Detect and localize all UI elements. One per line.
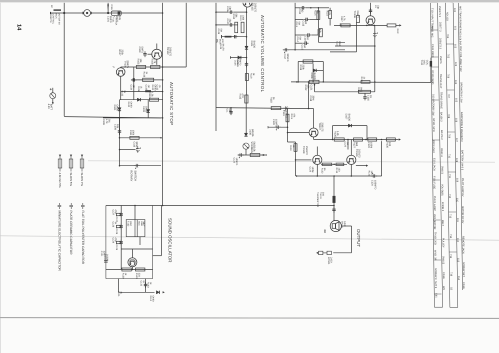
resistor R-out (387, 24, 396, 27)
svg-text:R111: R111 (129, 130, 132, 136)
svg-text:102: 102 (454, 44, 457, 49)
capacitor C111 (134, 164, 140, 169)
svg-text:BA176: BA176 (222, 44, 225, 52)
wire mid branch (147, 100, 149, 118)
svg-text:106: 106 (455, 118, 458, 123)
table row tick (435, 293, 442, 295)
wire rotary vertical (119, 118, 121, 166)
svg-text:J101 MOTOR: J101 MOTOR (433, 214, 436, 230)
svg-text:30M: 30M (338, 41, 341, 46)
wire jog51 (330, 51, 357, 53)
label C103 (138, 47, 144, 54)
labels cluster2 (302, 21, 308, 27)
svg-text:2SB75: 2SB75 (439, 56, 442, 64)
wire r column (317, 8, 319, 43)
resistor R114 (317, 11, 320, 19)
wire TR102 top (156, 44, 158, 50)
label R122v (289, 145, 295, 151)
arrowhead (399, 24, 401, 26)
svg-text:C102: C102 (156, 85, 159, 91)
svg-text:R119: R119 (299, 65, 302, 71)
junction (308, 108, 310, 110)
label R123 value (357, 87, 363, 93)
wire osc exit (117, 279, 119, 293)
wire t102 tap (139, 237, 141, 245)
svg-text:WHT: WHT (142, 222, 145, 228)
labels cluster (298, 9, 304, 15)
wire branch (133, 67, 135, 100)
svg-text:108: 108 (455, 158, 458, 163)
label R118 (270, 97, 276, 103)
svg-text:C103: C103 (138, 47, 141, 53)
svg-text:C119: C119 (282, 110, 285, 116)
wire TR109 collector (350, 140, 352, 156)
wire stub (216, 11, 228, 13)
svg-text:NUT 3: NUT 3 (434, 281, 437, 289)
junction (162, 205, 164, 207)
svg-text:712: 712 (448, 194, 451, 199)
svg-text:PLATE CERAMIC CAPACITOR: PLATE CERAMIC CAPACITOR (69, 211, 73, 256)
resistor R117b (357, 16, 360, 23)
svg-text:R109: R109 (102, 119, 105, 125)
wire TR107 base (288, 132, 310, 134)
svg-text:R132: R132 (321, 168, 324, 174)
earphone jack EP101 (319, 251, 332, 254)
wire TR108 base (296, 159, 312, 161)
junction blob (107, 12, 109, 14)
svg-text:R115: R115 (316, 29, 319, 35)
svg-text:111: 111 (456, 218, 459, 222)
label C131b (100, 251, 106, 257)
junction (374, 45, 376, 47)
svg-text:OSC: OSC (423, 60, 426, 65)
svg-text:C131: C131 (117, 291, 120, 297)
junction (119, 165, 121, 167)
label C118 (309, 96, 315, 102)
junction (332, 139, 334, 141)
mic black bar (225, 36, 232, 38)
resistor R118 (271, 107, 281, 110)
table B bottom (450, 306, 458, 308)
junction (119, 149, 121, 151)
svg-text:R140: R140 (147, 282, 150, 288)
wire stub (234, 11, 247, 13)
wire osc stub (153, 255, 162, 257)
label C1x (114, 124, 120, 130)
wire stub (295, 42, 303, 44)
tick (266, 154, 268, 156)
junction (373, 25, 375, 27)
junction (162, 12, 164, 14)
svg-text:MOTOR DC 6V: MOTOR DC 6V (461, 206, 464, 224)
wire speaker right (342, 225, 352, 227)
junction (296, 81, 298, 83)
capacitor C116 (363, 95, 366, 101)
wire d107 row (333, 125, 368, 127)
svg-text:BA126: BA126 (253, 41, 256, 49)
wire TR108 collector (316, 147, 318, 156)
svg-text:220k: 220k (302, 65, 305, 71)
svg-text:RC: RC (50, 5, 53, 9)
label TR111 (103, 254, 109, 262)
svg-text:0.2W: 0.2W (343, 221, 346, 227)
svg-text:D105: D105 (219, 44, 222, 50)
svg-text:R131: R131 (368, 171, 371, 177)
motor jack J101 (83, 10, 91, 17)
svg-text:470: 470 (241, 94, 244, 99)
label D107 BA126 (345, 114, 351, 122)
capacitor C117 (283, 48, 289, 53)
label R117 (340, 16, 346, 22)
table row tick (448, 171, 456, 173)
label C109b2 (236, 59, 242, 66)
table line L1 (431, 3, 435, 308)
svg-text:D108: D108 (248, 129, 251, 135)
svg-text:KNOB 2: KNOB 2 (441, 202, 444, 212)
svg-text:5M: 5M (303, 45, 306, 48)
svg-text:100M: 100M (311, 167, 314, 173)
legend arrow (59, 155, 61, 157)
wire bus V5 (294, 1, 296, 50)
label EP101 (327, 257, 333, 265)
table line L5 (458, 3, 462, 291)
svg-text:R106: R106 (151, 59, 154, 65)
svg-text:SCREW 3: SCREW 3 (434, 268, 437, 280)
wire drop (314, 84, 316, 92)
wire stop row (121, 66, 187, 68)
svg-text:R117: R117 (340, 16, 343, 22)
wire mic row (222, 36, 247, 38)
junction (351, 175, 353, 177)
svg-text:109: 109 (455, 178, 458, 183)
wire row79 (131, 79, 163, 81)
transistor TR111 inner ring (129, 259, 135, 265)
label D101a value (151, 85, 157, 92)
svg-text:C129: C129 (115, 245, 118, 251)
label R120 (304, 85, 312, 91)
junction (119, 137, 121, 139)
capacitor C109b (245, 62, 248, 68)
junction (162, 79, 164, 81)
wire stub (329, 19, 331, 26)
label R107 220k (118, 50, 124, 57)
svg-text:SW102: SW102 (442, 256, 445, 265)
label R113 (239, 15, 245, 21)
svg-text:SP101: SP101 (341, 221, 344, 229)
svg-text:R124: R124 (289, 145, 292, 151)
label mic (216, 39, 225, 45)
svg-text:MINIATURE ELECTROLYTIC CAPACIT: MINIATURE ELECTROLYTIC CAPACITOR (57, 211, 61, 272)
svg-text:2SB175: 2SB175 (253, 3, 256, 13)
wire tr111 collector (131, 249, 133, 258)
label TH101 (316, 192, 325, 207)
svg-text:C115: C115 (301, 45, 304, 51)
lead tick (50, 12, 52, 14)
svg-text:C114: C114 (304, 36, 307, 42)
junction (162, 91, 164, 93)
junction (308, 81, 310, 83)
junction (381, 139, 383, 141)
resistor R115 (319, 29, 322, 37)
svg-text:C109: C109 (236, 59, 239, 65)
svg-text:R140: R140 (135, 273, 138, 279)
table B top (446, 1, 454, 3)
svg-text:TH101 20D: TH101 20D (434, 232, 437, 245)
svg-text:2k2: 2k2 (301, 9, 304, 14)
svg-text:R126: R126 (334, 131, 337, 137)
label D104 (250, 41, 256, 49)
wire stub (295, 7, 300, 9)
wire box right (322, 62, 324, 82)
svg-text:CASE: CASE (462, 282, 465, 289)
svg-text:R114: R114 (314, 10, 317, 16)
resistor R137 (116, 225, 120, 227)
svg-text:714: 714 (449, 234, 452, 239)
svg-text:100k: 100k (132, 130, 135, 136)
junction (317, 175, 319, 177)
resistor R108 (143, 78, 154, 81)
junction (132, 269, 134, 271)
svg-text:220k: 220k (121, 50, 124, 56)
label R133 value (335, 168, 341, 174)
label R114 value (314, 10, 320, 16)
junction (314, 84, 316, 86)
junction (230, 107, 232, 109)
wire bottom bus (297, 175, 382, 177)
arrow taper (107, 4, 109, 10)
svg-text:112: 112 (456, 238, 459, 243)
label R115 value (316, 29, 322, 35)
resistor R139 (136, 268, 145, 271)
svg-text:560: 560 (355, 142, 358, 147)
svg-text:R121: R121 (360, 77, 363, 83)
svg-text:MIC: MIC (216, 39, 219, 44)
svg-text:BATTERY UM-3 3: BATTERY UM-3 3 (460, 150, 463, 171)
wire box top (298, 61, 323, 63)
resistor R122v (294, 144, 297, 152)
transistor TR102 (152, 49, 162, 59)
svg-text:14: 14 (16, 24, 22, 31)
label R125 (250, 147, 256, 153)
label D101 (113, 105, 119, 112)
svg-text:D102: D102 (127, 102, 130, 108)
svg-text:TR108: TR108 (302, 146, 305, 154)
svg-text:MIC TRANSFORMER 600:10k P-P: MIC TRANSFORMER 600:10k P-P (458, 6, 461, 45)
table row tick (434, 219, 441, 221)
svg-text:B101 UM-3: B101 UM-3 (432, 140, 435, 153)
labels cluster3 (304, 36, 310, 42)
label D105 (219, 44, 225, 52)
svg-text:C123: C123 (233, 158, 236, 164)
svg-text:BATT: BATT (50, 104, 53, 111)
wire bus drop (374, 82, 376, 92)
svg-text:C104: C104 (130, 85, 133, 91)
label C122 (367, 142, 373, 148)
svg-text:OUTPUT: OUTPUT (356, 229, 361, 247)
legend ecap symbol (58, 203, 62, 209)
label R121 value (360, 77, 366, 83)
svg-text:C110: C110 (133, 142, 136, 148)
wire lower drop (295, 142, 297, 176)
svg-text:JACK: JACK (330, 257, 333, 264)
svg-text:OA90 4: OA90 4 (440, 148, 443, 157)
label C114b (296, 37, 302, 43)
legend arrow (81, 155, 83, 157)
junction (366, 25, 368, 27)
table row tick (446, 43, 454, 45)
arrowhead jack (316, 252, 318, 254)
transistor TR109 (347, 155, 356, 164)
label C125 (309, 167, 315, 173)
svg-text:BA126: BA126 (251, 129, 254, 137)
svg-text:R130: R130 (386, 142, 389, 148)
svg-text:T102: T102 (420, 60, 423, 66)
svg-text:D107: D107 (345, 114, 348, 120)
svg-text:M101 MIC: M101 MIC (431, 26, 434, 38)
label C102 (156, 85, 162, 91)
svg-text:C118: C118 (309, 96, 312, 102)
wire pot column (245, 95, 247, 133)
label D105 (234, 60, 240, 68)
table row tick (447, 89, 455, 91)
label OSC COIL left (420, 60, 429, 66)
svg-text:MOTOR 6V: MOTOR 6V (58, 13, 61, 25)
diode D104 (245, 46, 248, 49)
junction (333, 175, 335, 177)
svg-text:110: 110 (456, 198, 459, 203)
label TR101 (124, 61, 130, 69)
svg-text:R110: R110 (148, 92, 151, 98)
wire r117 row (334, 24, 387, 26)
label C116 (367, 95, 373, 101)
label R131 value (368, 171, 374, 177)
svg-text:CONTROL: CONTROL (52, 13, 55, 25)
wire c-stub (230, 108, 232, 115)
wire row (318, 41, 345, 43)
wire row46 (335, 45, 375, 47)
label TR108 (302, 146, 308, 155)
label R115b (238, 94, 244, 100)
fuse F101 (111, 11, 121, 15)
wire left bus vertical (63, 1, 65, 116)
label C129 (115, 245, 118, 251)
label R130 (386, 142, 392, 148)
svg-text:104: 104 (454, 80, 457, 85)
wire squelch bus (314, 139, 399, 141)
svg-text:C121: C121 (309, 85, 312, 91)
arrowhead (263, 154, 265, 156)
table row tick (431, 56, 438, 58)
svg-text:TR105: TR105 (251, 3, 254, 11)
diode D102 (137, 98, 140, 101)
wire remote row (51, 12, 84, 14)
label R111 (129, 130, 135, 136)
svg-text:PULLEY: PULLEY (441, 238, 444, 248)
svg-text:OA90: OA90 (130, 102, 133, 109)
svg-text:100: 100 (388, 142, 391, 147)
svg-text:BA126 2: BA126 2 (440, 112, 443, 122)
table A top (431, 2, 438, 4)
resistor R110 (149, 98, 158, 101)
svg-text:716: 716 (449, 272, 452, 277)
table row tick (449, 211, 457, 213)
junction (162, 66, 164, 68)
svg-text:5M: 5M (299, 37, 302, 40)
label C-coll (374, 5, 380, 10)
label C120 (272, 119, 278, 127)
label R106 (151, 59, 157, 65)
label osc pair1 (112, 210, 118, 216)
page left edge (0, 0, 1, 353)
label C101 (107, 16, 113, 23)
label R105 (137, 59, 143, 65)
svg-text:114: 114 (457, 276, 460, 281)
svg-text:C132: C132 (140, 281, 143, 287)
svg-text:710: 710 (448, 154, 451, 159)
capacitor C114 (306, 33, 312, 36)
label osc pair2 (112, 222, 118, 228)
wire TR101 collector (120, 66, 122, 69)
wire volume row (238, 154, 266, 156)
svg-text:AUTOMATIC VOLUME CONTROL: AUTOMATIC VOLUME CONTROL (260, 15, 265, 93)
svg-text:704: 704 (446, 34, 449, 39)
table line L2 (438, 3, 443, 308)
svg-text:SW101: SW101 (441, 166, 444, 175)
wire c118 up (308, 82, 310, 109)
wire rotary row3 (120, 165, 162, 167)
junction (294, 49, 296, 51)
svg-text:ROTARY: ROTARY (130, 170, 133, 181)
svg-text:5M: 5M (304, 21, 307, 24)
svg-text:Cd1: Cd1 (434, 293, 437, 298)
svg-text:BA176 2: BA176 2 (440, 130, 443, 140)
resistor R121 (361, 81, 370, 84)
osc transformer T102 (126, 220, 145, 237)
capacitor C107 (228, 23, 234, 26)
svg-text:VC101 5k(B): VC101 5k(B) (431, 70, 434, 84)
svg-text:711: 711 (448, 174, 451, 179)
svg-text:R139: R139 (122, 273, 125, 279)
resistor R113 (241, 22, 244, 33)
wire c122 drop (381, 141, 383, 176)
wire tr111 emitter (131, 267, 133, 270)
label R102 (121, 91, 127, 97)
wire c132 drop (145, 279, 147, 293)
label C127 (115, 217, 118, 223)
svg-text:D103: D103 (142, 106, 145, 112)
wire pair row (321, 163, 347, 165)
svg-text:OA90: OA90 (145, 106, 148, 113)
label C124 (371, 180, 377, 190)
svg-text:E101 JACK: E101 JACK (432, 158, 435, 171)
svg-text:C107: C107 (226, 19, 229, 25)
wire stub (295, 18, 303, 20)
label R119b (290, 114, 296, 120)
svg-text:SCREW SET: SCREW SET (462, 262, 465, 277)
svg-text:2SB77: 2SB77 (356, 11, 359, 19)
svg-text:BA126: BA126 (313, 73, 316, 81)
svg-text:BELT: BELT (441, 220, 444, 227)
table row tick (431, 29, 438, 31)
svg-text:BA126: BA126 (347, 114, 350, 122)
svg-text:713: 713 (449, 214, 452, 219)
svg-text:D110: D110 (149, 296, 152, 302)
capacitor C110 (136, 146, 141, 152)
svg-text:TR102: TR102 (166, 47, 169, 55)
svg-text:SLOW 7%: SLOW 7% (80, 173, 84, 187)
wire osc top bus (106, 205, 334, 207)
legend fuse symbol 1 (58, 156, 62, 172)
